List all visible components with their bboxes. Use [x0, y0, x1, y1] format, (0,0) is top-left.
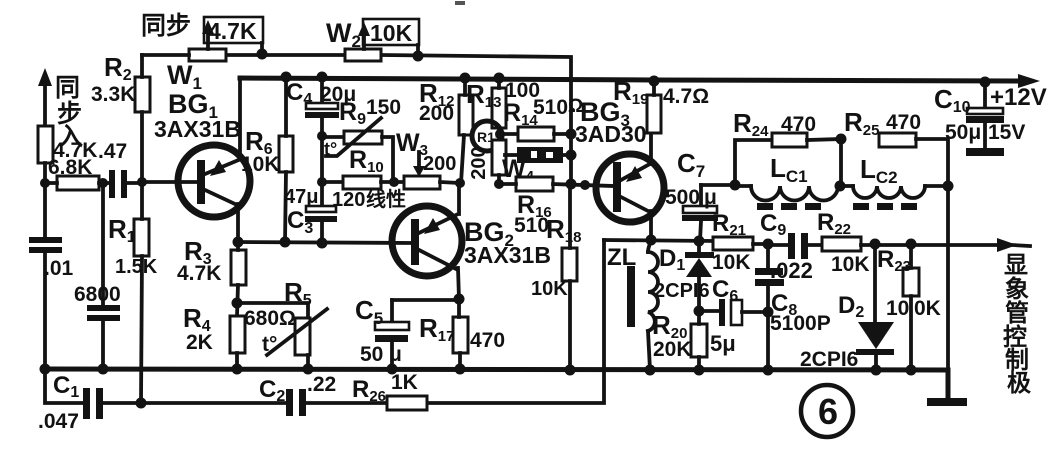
figure number 6 circled	[801, 385, 853, 437]
svg-text:C2: C2	[259, 376, 285, 405]
svg-text:10K: 10K	[370, 20, 413, 46]
thermistor R9 150	[322, 96, 401, 182]
svg-text:R5: R5	[284, 277, 312, 309]
svg-text:10: 10	[886, 297, 909, 320]
transistor BG2 3AX31B	[392, 184, 551, 299]
scan artifact mark top edge	[455, 1, 465, 5]
resistor R26 1K	[352, 371, 427, 410]
node D1 R20 C6	[694, 306, 705, 317]
resistor R13 100	[466, 78, 540, 140]
wire BG3 collector row	[604, 240, 714, 241]
svg-text:R25: R25	[844, 107, 879, 139]
inductor ZL with core	[607, 241, 658, 370]
svg-text:200: 200	[468, 146, 490, 179]
capacitor C2 .22	[259, 373, 336, 416]
node divider output to BG3 base	[566, 179, 577, 190]
resistor R16 510	[499, 177, 613, 237]
node BG1 collector R3	[233, 237, 244, 248]
svg-text:4.7Ω: 4.7Ω	[663, 85, 709, 108]
svg-text:.01: .01	[44, 257, 74, 280]
svg-text:680Ω: 680Ω	[244, 307, 296, 330]
svg-text:R26: R26	[352, 376, 386, 405]
node input shunt	[40, 178, 50, 188]
svg-text:D1: D1	[659, 245, 685, 274]
potentiometer W2 with boxed value 10K	[326, 18, 419, 61]
node C7 D1 collector row	[694, 236, 705, 247]
svg-text:线性: 线性	[366, 187, 406, 211]
svg-text:R18: R18	[546, 214, 581, 246]
node rail C5	[387, 364, 398, 375]
capacitor C10 50u 15V	[934, 82, 1025, 156]
node D2 branch	[870, 239, 881, 250]
node rail C10	[980, 77, 991, 88]
svg-text:C5: C5	[355, 295, 383, 328]
svg-text:LC2: LC2	[860, 154, 898, 187]
svg-text:50μ: 50μ	[945, 121, 981, 144]
node BG2 emitter C5 R17	[454, 294, 465, 305]
node rail R5	[303, 364, 314, 375]
node C4/R9	[317, 131, 327, 141]
resistor R1 1.5K	[108, 183, 158, 403]
svg-text:0K: 0K	[914, 297, 941, 320]
resistor R24 470	[733, 108, 841, 185]
svg-text:.47: .47	[98, 140, 127, 163]
wire BG1 base	[144, 180, 197, 184]
sync input arrow	[38, 68, 52, 126]
wire C7 to LC1	[701, 183, 735, 187]
resistor R15 200 with circled designator	[468, 121, 506, 184]
svg-text:象: 象	[1005, 275, 1029, 303]
svg-text:t°: t°	[324, 139, 337, 159]
svg-text:470: 470	[470, 329, 505, 352]
svg-text:C4: C4	[286, 79, 312, 108]
inductor LC1	[735, 153, 838, 201]
node BG3 collector ZL	[646, 235, 657, 246]
resistor R12 200	[419, 78, 473, 183]
svg-text:6800: 6800	[74, 283, 121, 306]
svg-text:4.7K: 4.7K	[208, 18, 257, 44]
svg-text:10K: 10K	[712, 251, 751, 274]
svg-text:15V: 15V	[988, 121, 1025, 144]
resistor R19 4.7 ohm	[613, 76, 709, 133]
svg-text:1.5K: 1.5K	[115, 256, 158, 278]
svg-text:极: 极	[1007, 370, 1031, 397]
svg-text:R24: R24	[733, 108, 769, 140]
potentiometer W3 200	[396, 129, 460, 189]
node rail R19	[649, 76, 660, 87]
node rail R12	[460, 73, 471, 84]
wire BG1 collector to BG2 base	[238, 242, 411, 243]
node LC input	[730, 180, 741, 191]
output arrow to CRT	[997, 238, 1030, 252]
svg-text:2CPI6: 2CPI6	[800, 348, 858, 371]
svg-text:3AX31B: 3AX31B	[154, 116, 241, 142]
resistor R10 120	[322, 146, 404, 211]
node blob on BG3 base wire	[580, 180, 590, 190]
wire LC2 node down to bottom rail	[946, 186, 950, 370]
wire R24/R25 node to coil node	[839, 139, 843, 186]
svg-text:R23: R23	[877, 246, 911, 275]
transistor BG1 3AX31B	[154, 78, 250, 242]
node rail R17	[455, 364, 466, 375]
node R10/R9/W3	[389, 177, 399, 187]
svg-text:6.8K: 6.8K	[48, 156, 92, 179]
svg-text:500: 500	[665, 186, 700, 209]
svg-text:同: 同	[55, 74, 80, 102]
resistor R22 10K	[817, 209, 1000, 276]
node sync/base junction	[137, 177, 147, 187]
node R24 R25 junction	[836, 134, 847, 145]
capacitor C4 20u	[286, 78, 356, 206]
svg-text:10K: 10K	[241, 153, 280, 176]
svg-text:470: 470	[781, 113, 816, 136]
svg-text:t°: t°	[262, 333, 277, 356]
node W2 column to R14	[566, 129, 577, 140]
node R15 R16 W3 row	[494, 179, 504, 189]
svg-text:C6: C6	[712, 276, 738, 305]
svg-text:120: 120	[332, 189, 365, 211]
capacitor C9 .022	[760, 210, 822, 283]
svg-text:10K: 10K	[831, 253, 870, 276]
resistor R20 20K	[652, 310, 707, 370]
node rail 6800	[98, 364, 109, 375]
potentiometer W4 (dark printed box)	[502, 147, 571, 185]
resistor R2 3.3K	[91, 52, 150, 183]
svg-text:R10: R10	[349, 146, 384, 176]
resistor 6.8K	[45, 156, 109, 190]
svg-text:R9: R9	[339, 98, 366, 128]
core dashes LC1	[757, 203, 821, 210]
capacitor C3 47u	[284, 186, 337, 243]
svg-text:.047: .047	[38, 410, 79, 433]
node LC2 output	[943, 181, 954, 192]
node rail left end	[40, 364, 51, 375]
node C3/R10	[317, 177, 327, 187]
svg-text:.22: .22	[307, 373, 336, 396]
svg-text:510: 510	[514, 214, 549, 237]
svg-text:R22: R22	[817, 209, 851, 238]
label 同步入 sync input	[55, 74, 83, 151]
wire: +12V supply rail	[240, 74, 1040, 88]
svg-text:D2: D2	[838, 292, 864, 321]
node W2 column to W4	[566, 150, 577, 161]
svg-text:显: 显	[1004, 252, 1028, 279]
svg-text:200: 200	[423, 153, 456, 175]
svg-text:4.7K: 4.7K	[177, 262, 221, 285]
wire: bottom common rail	[45, 369, 948, 399]
svg-text:W2: W2	[326, 18, 361, 51]
resistor R3 4.7K	[177, 236, 246, 316]
node R1 to feedback row	[136, 398, 147, 409]
svg-text:20K: 20K	[653, 338, 692, 361]
node R23 branch	[906, 239, 917, 250]
resistor R14 510 ohm	[501, 96, 583, 141]
svg-text:2CPI6: 2CPI6	[654, 280, 710, 302]
svg-text:10K: 10K	[531, 278, 568, 300]
svg-text:50: 50	[360, 343, 383, 366]
resistor R17 470	[419, 299, 505, 369]
svg-text:3AD30: 3AD30	[575, 121, 647, 147]
diode D2 2CP16	[800, 244, 894, 371]
transistor BG3 3AD30	[575, 97, 664, 240]
resistor R25 470	[844, 107, 948, 186]
node rail R23	[906, 365, 917, 376]
node BG2 collector top	[455, 178, 465, 188]
svg-text:ZL: ZL	[607, 244, 636, 271]
node rail R13	[494, 73, 505, 84]
node 6800 tap	[98, 178, 108, 188]
node rail R6	[281, 72, 292, 83]
resistor R23 100K	[877, 244, 941, 370]
node W2 top tie	[413, 51, 424, 62]
potentiometer W1 with boxed value 4.7K	[142, 17, 263, 93]
svg-text:R1: R1	[108, 214, 136, 246]
node rail R20	[694, 365, 705, 376]
capacitor .47 coupling	[98, 140, 144, 198]
svg-text:LC1: LC1	[770, 153, 808, 186]
resistor R6 10K	[241, 78, 293, 242]
svg-text:C10: C10	[934, 84, 971, 116]
svg-text:R21: R21	[712, 210, 746, 239]
svg-text:5100P: 5100P	[770, 312, 831, 335]
svg-text:C1: C1	[53, 372, 79, 401]
svg-text:R2: R2	[104, 52, 132, 84]
node C6 to C8 line	[763, 307, 774, 318]
svg-text:200: 200	[419, 102, 454, 125]
svg-text:μ: μ	[704, 186, 717, 209]
svg-text:510: 510	[533, 96, 568, 119]
svg-text:C7: C7	[677, 148, 705, 181]
svg-text:3AX31B: 3AX31B	[464, 242, 551, 268]
svg-text:47μ: 47μ	[284, 186, 318, 208]
node R6 bottom	[280, 237, 291, 248]
node R3 R4 R5	[232, 298, 243, 309]
node rail D2	[871, 365, 882, 376]
capacitor C5 50u	[355, 295, 459, 369]
capacitor 6800	[74, 183, 121, 369]
svg-text:150: 150	[366, 96, 401, 119]
capacitor .01	[29, 183, 74, 369]
wire: C1 C2 R26 feedback row	[45, 240, 604, 403]
ground chassis bar	[927, 398, 967, 406]
resistor R21 10K	[712, 210, 768, 274]
node R13 R14 R15	[495, 129, 505, 139]
capacitor C1 .047	[38, 372, 103, 433]
thermistor R5 680 ohm	[238, 277, 327, 369]
svg-text:1K: 1K	[391, 371, 418, 394]
core dashes LC2	[853, 203, 917, 210]
resistor R4 2K	[183, 303, 245, 369]
svg-text:3.3K: 3.3K	[91, 83, 135, 106]
capacitor C8 5100P	[755, 244, 831, 370]
node rail C8	[763, 365, 774, 376]
capacitor C7 500u	[665, 148, 718, 241]
svg-text:管: 管	[1005, 299, 1029, 327]
node rail R18	[565, 365, 576, 376]
svg-text:R13: R13	[466, 79, 501, 111]
svg-text:6: 6	[818, 391, 838, 432]
resistor 4.7K (sync input series)	[38, 126, 97, 183]
svg-text:同步: 同步	[141, 12, 191, 40]
node rail R4	[232, 364, 243, 375]
node LC1 LC2 junction	[835, 181, 846, 192]
node R21 C8 C9	[763, 239, 774, 250]
resistor R18 10K	[531, 185, 581, 370]
inductor LC2	[841, 154, 948, 198]
svg-text:470: 470	[886, 111, 921, 134]
wire: top bias line from W1 node to W2 and down to divider column	[226, 55, 571, 184]
svg-text:R17: R17	[419, 313, 454, 345]
node C3 bottom	[317, 238, 328, 249]
node W1 top tie	[257, 49, 268, 60]
svg-text:.022: .022	[770, 258, 813, 283]
svg-text:2K: 2K	[186, 331, 213, 354]
label 显象管控制极 CRT control grid	[1003, 252, 1031, 397]
capacitor C6 5u	[699, 276, 768, 356]
svg-text:μ: μ	[389, 343, 402, 366]
node rail C4	[317, 72, 328, 83]
diode D1 2CP16	[654, 241, 714, 311]
svg-text:C9: C9	[760, 210, 786, 239]
svg-text:5μ: 5μ	[710, 331, 736, 356]
node rail ZL	[645, 365, 656, 376]
